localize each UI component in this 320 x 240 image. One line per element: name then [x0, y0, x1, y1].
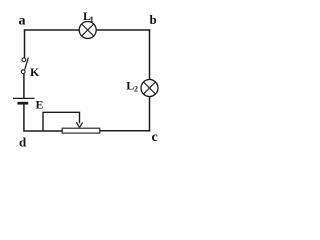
node b [150, 12, 157, 27]
svg-text:b: b [150, 12, 157, 27]
battery E short plate [17, 102, 28, 105]
rheostat wiper arrowhead [76, 122, 82, 127]
svg-text:E: E [36, 98, 44, 112]
wire left lower (battery to d) [23, 105, 25, 132]
rheostat R body [62, 128, 100, 133]
wire top-left (a to L1) [25, 29, 80, 31]
node a [19, 14, 26, 29]
lamp L2 [141, 80, 158, 97]
svg-text:1: 1 [90, 15, 94, 24]
wire left middle (switch to battery) [23, 74, 25, 98]
wire top-right (L1 to b) [96, 29, 150, 31]
switch K blade [25, 58, 29, 70]
node d [19, 135, 27, 150]
svg-text:d: d [19, 135, 27, 150]
switch K upper contact [22, 58, 26, 62]
svg-text:c: c [152, 130, 158, 145]
label E [36, 98, 44, 112]
wire left upper (a down to switch) [24, 29, 26, 57]
svg-text:2: 2 [134, 84, 138, 93]
svg-text:a: a [19, 14, 26, 29]
wire bottom-left (d to rheostat) [24, 130, 62, 132]
label L1 [83, 9, 94, 24]
label K [30, 65, 40, 79]
lamp L1 [79, 22, 96, 39]
wire bottom-right (rheostat to c) [100, 130, 150, 132]
label L2 [126, 79, 138, 94]
node c [152, 130, 158, 145]
switch K lower contact [21, 70, 25, 74]
rheostat wiper wire (to bottom wire) [43, 112, 80, 131]
battery E long plate [13, 97, 35, 99]
svg-text:K: K [30, 65, 40, 79]
wire right lower (L2 to c) [149, 97, 151, 132]
wire right upper (b to L2) [149, 29, 151, 79]
